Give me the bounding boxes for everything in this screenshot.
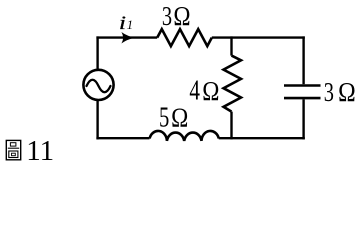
wire bottom-left segment — [96, 137, 149, 139]
svg-text:4: 4 — [189, 74, 200, 106]
resistor R2 4ohm (middle, vertical zigzag) — [224, 56, 242, 112]
figure caption glyph (CJK tu) — [6, 140, 20, 159]
wire middle branch lower stub — [230, 112, 232, 140]
ac source VS (circle with sine) — [83, 70, 113, 100]
wire top-right segment — [212, 36, 305, 38]
svg-text:1: 1 — [127, 18, 133, 32]
wire left vertical upper — [96, 36, 98, 70]
current arrow i1 — [121, 32, 136, 44]
svg-text:i: i — [119, 12, 126, 33]
wire right vertical lower — [302, 99, 304, 139]
svg-text:Ω: Ω — [202, 77, 219, 106]
inductor L1 5ohm (bottom, 4 humps) — [150, 131, 219, 141]
wire bottom-right segment — [219, 137, 305, 139]
svg-text:Ω: Ω — [338, 77, 356, 108]
svg-text:Ω: Ω — [173, 2, 190, 31]
label 3 ohm (top resistor value) — [162, 2, 191, 31]
label 4 ohm (middle resistor value) — [189, 74, 219, 106]
capacitor C1 3ohm (two plates) — [284, 86, 321, 99]
wire right vertical upper — [302, 36, 304, 84]
wire middle branch upper stub — [230, 36, 232, 55]
wire top-left segment — [96, 36, 157, 38]
svg-text:3: 3 — [324, 78, 334, 107]
svg-text:3: 3 — [162, 2, 172, 31]
label i1 — [119, 12, 133, 33]
svg-text:11: 11 — [26, 135, 54, 167]
wire left vertical lower — [96, 100, 98, 140]
svg-text:Ω: Ω — [171, 104, 188, 133]
resistor R1 3ohm (top, horizontal zigzag) — [157, 29, 212, 46]
label 5 ohm (inductor value) — [159, 102, 188, 133]
label 3 ohm (capacitor value) — [324, 77, 356, 108]
svg-text:5: 5 — [159, 102, 169, 133]
